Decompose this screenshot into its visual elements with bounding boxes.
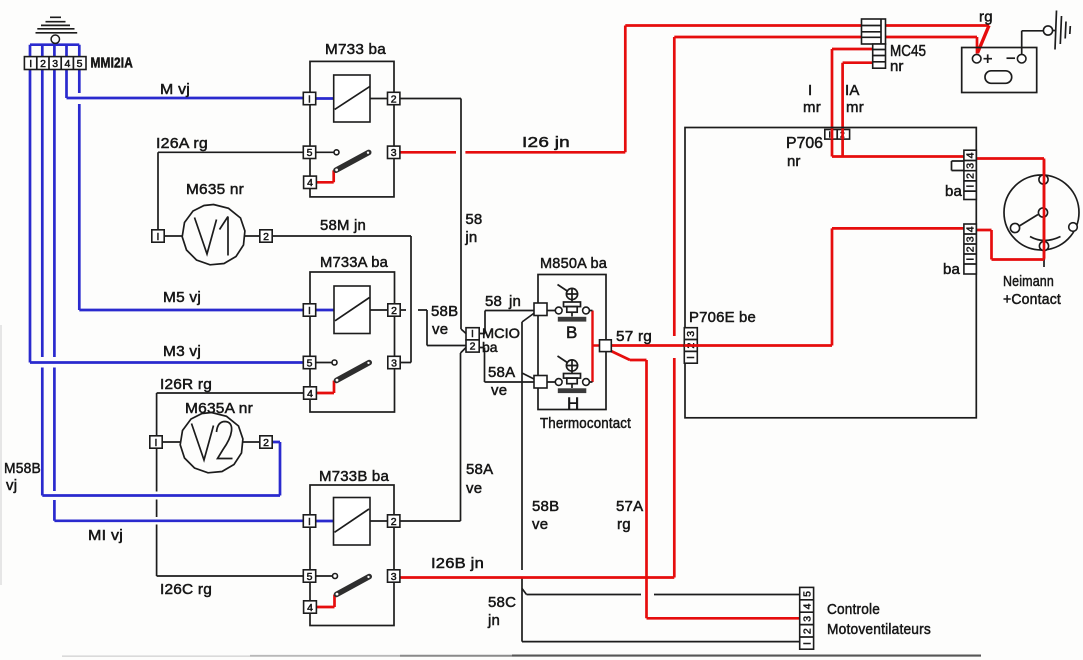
jumper bracket at P706 right connector	[952, 161, 964, 171]
thermocontact output pin 57	[600, 340, 612, 352]
svg-text:H: H	[567, 394, 579, 413]
svg-text:Thermocontact: Thermocontact	[540, 415, 632, 432]
wire M5 vj (MM121A pin5 to M733A pin1)	[79, 45, 303, 310]
wire blue coil feeds inside relays	[316, 99, 334, 522]
wire 126C rg (vertical through V2 pin1 to M733B pin5)	[157, 448, 304, 576]
svg-text:I: I	[965, 258, 977, 261]
svg-text:ba: ba	[945, 183, 963, 200]
ground (battery, top-right)	[1043, 11, 1070, 50]
thermocontact switch B	[534, 285, 593, 322]
svg-text:5: 5	[307, 147, 313, 159]
wire M733B pin4 pigtail	[317, 595, 335, 607]
svg-text:M635A nr: M635A nr	[185, 400, 253, 417]
svg-text:5: 5	[307, 571, 313, 583]
wire 126 jn (M733 pin3 up and right to MC45)	[400, 26, 989, 153]
svg-text:I: I	[829, 130, 831, 140]
wire battery negative to ground	[1022, 31, 1043, 55]
wire 126A rg (M733 pin5 to V1 pin1)	[158, 152, 303, 230]
svg-text:58: 58	[465, 211, 482, 228]
svg-text:58A: 58A	[488, 364, 515, 381]
svg-text:2: 2	[263, 231, 269, 243]
svg-text:57A: 57A	[616, 498, 643, 515]
svg-text:B: B	[566, 323, 577, 342]
svg-text:MI vj: MI vj	[88, 527, 123, 544]
svg-text:I: I	[471, 328, 474, 340]
svg-text:58C: 58C	[488, 594, 516, 611]
svg-text:57 rg: 57 rg	[616, 328, 652, 345]
svg-text:I: I	[802, 642, 814, 645]
svg-text:M850A ba: M850A ba	[540, 255, 607, 272]
svg-text:58A: 58A	[466, 461, 493, 478]
wire 58 jn (M733 pin2 down to MC10 pin1)	[400, 99, 466, 334]
motor M635 V1	[152, 205, 272, 265]
svg-text:vj: vj	[6, 477, 17, 494]
svg-text:I: I	[155, 437, 158, 449]
svg-text:I26C rg: I26C rg	[160, 581, 212, 598]
svg-text:4: 4	[307, 602, 313, 614]
svg-text:Neimann: Neimann	[1003, 273, 1054, 290]
relay M733B	[303, 485, 400, 626]
svg-text:M vj: M vj	[160, 81, 190, 98]
svg-text:I: I	[965, 185, 977, 188]
svg-text:I: I	[157, 231, 160, 243]
svg-text:+Contact: +Contact	[1003, 291, 1062, 308]
svg-text:P706E be: P706E be	[689, 309, 756, 326]
wire 1 mr (MC45 to P706 pin1)	[832, 49, 873, 157]
wire Neimann bottom to P706 lower connector pin4	[976, 230, 1044, 260]
connector P706 right top (ba)	[964, 150, 977, 199]
svg-text:2: 2	[965, 246, 977, 252]
svg-text:3: 3	[391, 571, 397, 583]
wire 58 jn pigtail (MC10 pin1 to thermocontact B pad)	[479, 311, 535, 334]
bottom scan line	[1, 325, 981, 656]
svg-text:jn: jn	[508, 293, 521, 310]
svg-text:M733 ba: M733 ba	[325, 41, 386, 58]
svg-text:I26 jn: I26 jn	[522, 134, 570, 151]
svg-text:I: I	[308, 516, 311, 528]
svg-text:58M jn: 58M jn	[320, 217, 366, 234]
svg-text:ve: ve	[491, 382, 507, 399]
svg-text:I26R rg: I26R rg	[160, 376, 212, 393]
svg-text:2: 2	[391, 516, 397, 528]
svg-text:Controle: Controle	[827, 601, 880, 618]
svg-text:Motoventilateurs: Motoventilateurs	[827, 621, 931, 638]
wire P706 pin4 to Neimann top	[976, 159, 1044, 260]
svg-text:4: 4	[307, 388, 313, 400]
svg-text:mr: mr	[846, 99, 864, 116]
svg-text:2: 2	[802, 628, 814, 634]
svg-text:4: 4	[965, 226, 977, 232]
wire M733A pin4 pigtail	[317, 381, 334, 393]
svg-text:5: 5	[307, 357, 313, 369]
svg-text:3: 3	[965, 163, 977, 169]
svg-text:ve: ve	[466, 480, 482, 497]
wire 58B ve (M733A pin2 to MC10 pin2)	[400, 310, 466, 346]
connector MM121A	[24, 57, 86, 71]
svg-text:2: 2	[470, 341, 476, 353]
svg-text:ba: ba	[943, 261, 961, 278]
svg-text:M5 vj: M5 vj	[163, 289, 201, 306]
svg-text:5: 5	[802, 591, 814, 597]
connector P706 right bottom (ba)	[964, 224, 977, 274]
svg-text:M635 nr: M635 nr	[186, 181, 244, 198]
svg-text:M3 vj: M3 vj	[163, 343, 201, 360]
svg-text:rg: rg	[979, 9, 993, 26]
wire M vj (MM121A pin4 to M733 pin1)	[67, 45, 304, 98]
battery	[962, 48, 1037, 93]
wire M58B vj (MM121A pin2 to V2 pin2)	[42, 45, 280, 496]
connector Controle Motoventilateurs	[800, 587, 814, 649]
wire M3 vj (MM121A pin1 to M733A pin5)	[30, 45, 303, 363]
svg-text:MMI2IA: MMI2IA	[91, 55, 134, 72]
wire 58A pigtail (MC10 pin2 to thermocontact H pad)	[479, 348, 535, 383]
svg-text:rg: rg	[617, 516, 631, 533]
svg-text:I: I	[29, 58, 32, 70]
relay M733A	[303, 272, 400, 412]
svg-text:I26B jn: I26B jn	[431, 555, 484, 572]
svg-text:2: 2	[263, 437, 269, 449]
motor M635A V2	[150, 413, 272, 473]
svg-text:I: I	[808, 82, 812, 99]
svg-text:jn: jn	[487, 612, 500, 629]
relay M733	[303, 61, 400, 197]
svg-text:mr: mr	[803, 99, 821, 116]
svg-text:3: 3	[391, 357, 397, 369]
svg-text:IA: IA	[845, 82, 860, 99]
wire blue bus under ground	[30, 43, 79, 46]
thermocontact M850A outer box	[538, 275, 606, 410]
wire P706 internal to right connector pin4	[832, 155, 964, 158]
svg-text:4: 4	[802, 603, 814, 609]
svg-text:5: 5	[77, 58, 83, 70]
box P706	[685, 128, 976, 418]
connector P706 pins 1|2	[825, 130, 850, 140]
svg-text:ve: ve	[432, 321, 448, 338]
svg-text:3: 3	[685, 331, 697, 337]
svg-text:58: 58	[485, 293, 502, 310]
thermocontact switch H	[534, 356, 593, 393]
svg-text:58B: 58B	[431, 303, 458, 320]
svg-text:I: I	[685, 356, 697, 359]
connector P706E	[684, 328, 697, 364]
wire 58B ve riser (thermocontact pads down to bottom)	[522, 313, 800, 642]
svg-text:I26A rg: I26A rg	[156, 135, 208, 152]
wire 58C jn branch to Controle pin5	[522, 589, 800, 595]
svg-text:jn: jn	[464, 229, 477, 246]
svg-text:M58B: M58B	[4, 460, 41, 477]
connector MC45	[862, 19, 886, 68]
svg-text:3: 3	[391, 147, 397, 159]
wire rg (to battery plus)	[978, 26, 990, 54]
svg-text:2: 2	[40, 58, 46, 70]
svg-text:ba: ba	[482, 339, 498, 355]
wire 58M jn (V1 pin2 to M733A pin3)	[272, 236, 411, 363]
wire 57 rg (thermocontact to P706E pin2 and inside P706)	[611, 228, 964, 345]
svg-text:3: 3	[52, 58, 58, 70]
ground (chassis, top-left)	[36, 17, 78, 43]
svg-text:3: 3	[965, 236, 977, 242]
svg-text:I: I	[308, 305, 311, 317]
svg-text:ve: ve	[532, 516, 548, 533]
svg-text:58B: 58B	[532, 498, 559, 515]
wire M1 vj (MM121A pin3 to M733B pin1)	[54, 45, 303, 521]
wire M733 pin4 pigtail	[317, 170, 334, 182]
wire red overlays crossing connectors	[684, 129, 1044, 346]
svg-text:4: 4	[307, 177, 313, 189]
svg-text:P706: P706	[786, 135, 823, 152]
svg-text:2: 2	[391, 93, 397, 105]
connector MC10	[466, 328, 479, 353]
wire Neimann bottom stub	[1043, 251, 1045, 268]
wire 126R rg (junction to M733A pin4)	[157, 393, 304, 436]
svg-text:M733B ba: M733B ba	[319, 468, 389, 485]
wire 58A ve (MC10 pin2 down to M733B pin2)	[400, 348, 466, 522]
svg-text:2: 2	[965, 173, 977, 179]
svg-text:3: 3	[802, 616, 814, 622]
svg-text:I: I	[308, 93, 311, 105]
wire 1A mr (MC45 to P706 pin2)	[843, 63, 875, 157]
svg-text:nr: nr	[890, 58, 903, 75]
svg-text:4: 4	[965, 152, 977, 158]
wire 57A rg (thermocontact branch down to Controle pin3)	[611, 351, 800, 618]
svg-text:2: 2	[391, 305, 397, 317]
wire 1A mr trunk (MC45 down long vertical to 126B jn)	[400, 37, 977, 578]
Neimann ignition switch	[1004, 175, 1079, 251]
svg-text:M733A ba: M733A ba	[320, 254, 388, 271]
svg-text:nr: nr	[787, 153, 800, 170]
wire thermocontact internal red	[593, 311, 601, 383]
svg-text:4: 4	[64, 58, 70, 70]
